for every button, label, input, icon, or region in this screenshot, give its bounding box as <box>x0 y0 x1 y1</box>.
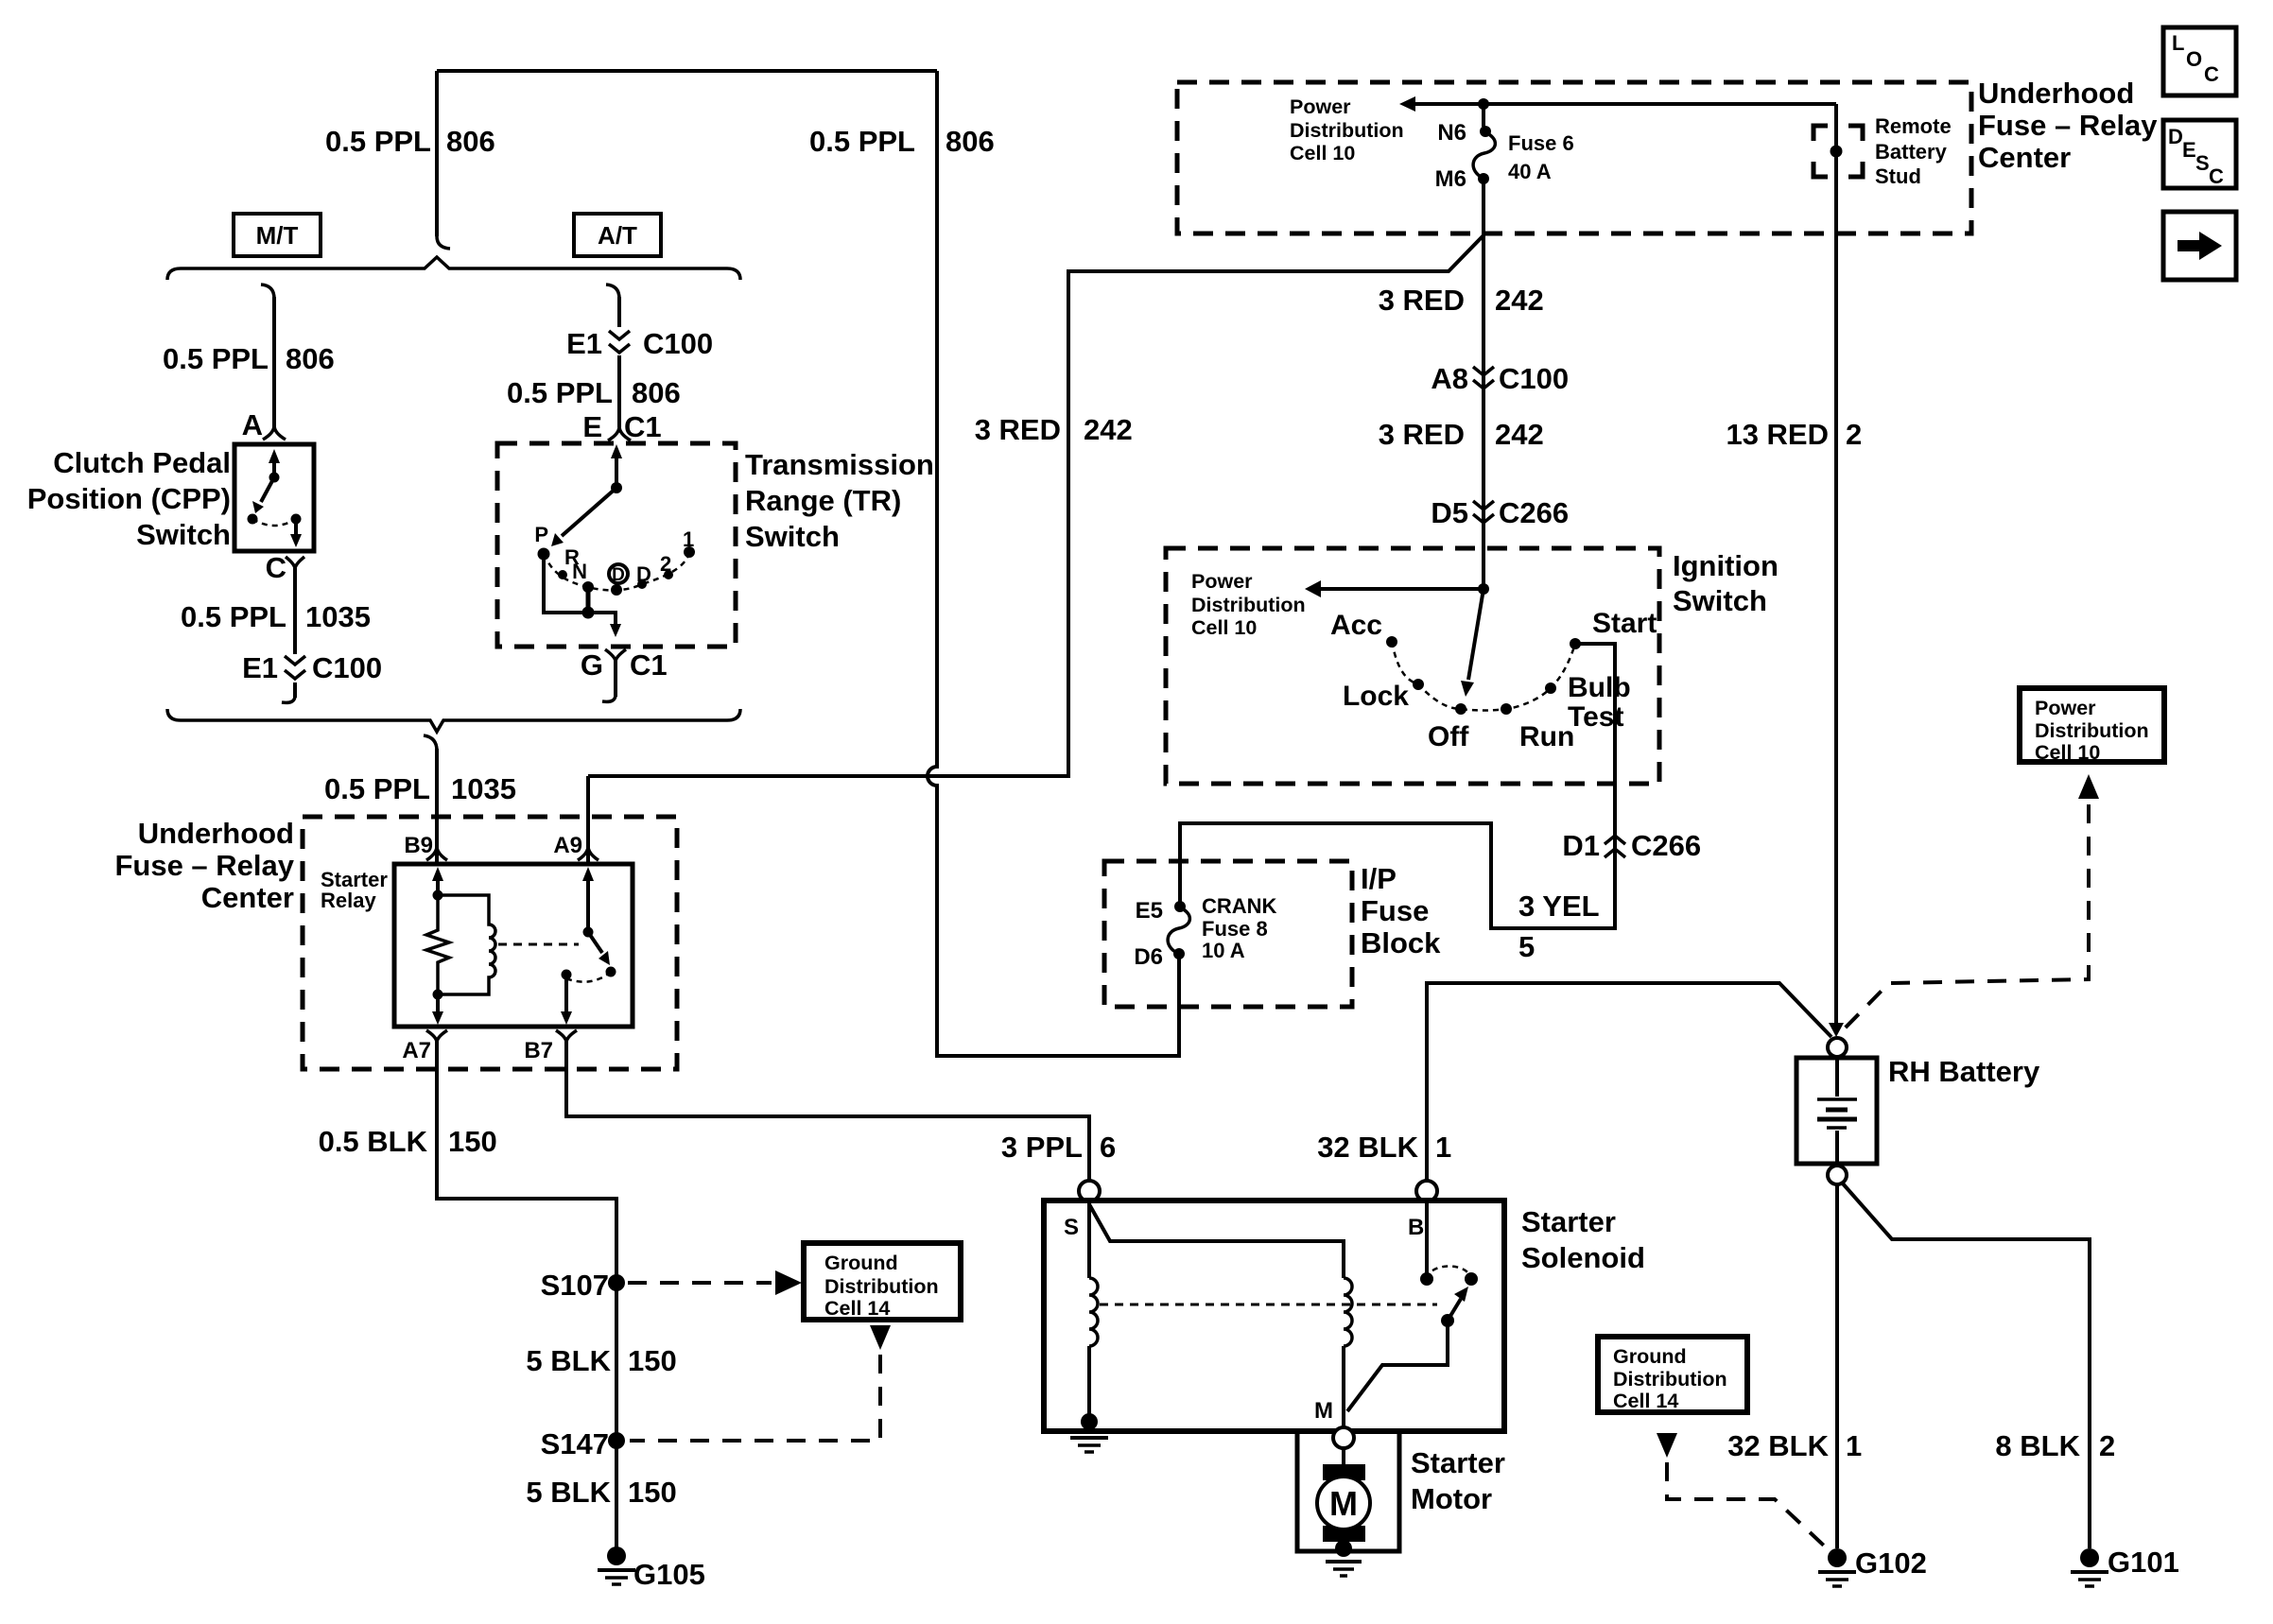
wire below G C1 to brace <box>614 661 617 697</box>
svg-text:Transmission: Transmission <box>745 448 934 481</box>
wire C down 0.5 PPL 1035 <box>293 568 297 654</box>
svg-text:806: 806 <box>946 125 995 158</box>
svg-text:D: D <box>612 565 625 585</box>
svg-text:A9: A9 <box>553 833 582 858</box>
wire hook below brace <box>424 735 437 751</box>
remote battery stud corner marks <box>1813 126 1863 177</box>
connector chevron at G C1 <box>605 649 626 662</box>
svg-text:Fuse – Relay: Fuse – Relay <box>114 849 294 882</box>
ground symbol under solenoid <box>1070 1436 1108 1440</box>
svg-text:M6: M6 <box>1435 166 1466 192</box>
wire top feed horizontal 0.5 PPL 806 <box>437 69 937 73</box>
arrow down from ground distribution box <box>870 1325 891 1350</box>
svg-text:M: M <box>1314 1398 1333 1424</box>
TR contact R <box>558 570 567 579</box>
M/T tag box <box>234 214 321 256</box>
svg-text:B: B <box>1408 1215 1424 1240</box>
svg-text:1: 1 <box>1846 1429 1862 1462</box>
svg-text:1035: 1035 <box>451 772 516 805</box>
svg-text:D1: D1 <box>1562 829 1600 862</box>
relay coil branch arrow down <box>436 994 440 1012</box>
svg-text:A7: A7 <box>402 1038 431 1063</box>
wire stud down 13 RED 2 <box>1834 104 1838 1025</box>
svg-text:D: D <box>636 562 651 586</box>
svg-text:C266: C266 <box>1499 496 1569 529</box>
svg-text:Power: Power <box>2035 697 2096 719</box>
svg-text:Range (TR): Range (TR) <box>745 484 901 517</box>
relay coil bottom junction dot <box>433 990 443 1000</box>
arrow legend box <box>2163 212 2236 280</box>
starter motor box <box>1297 1429 1399 1551</box>
svg-text:Fuse – Relay: Fuse – Relay <box>1978 109 2158 142</box>
svg-text:N6: N6 <box>1437 120 1466 146</box>
svg-text:G101: G101 <box>2108 1546 2179 1579</box>
svg-text:Cell 14: Cell 14 <box>824 1297 890 1320</box>
svg-text:C: C <box>266 551 286 584</box>
ignition contact Acc <box>1386 636 1397 648</box>
svg-text:Starter: Starter <box>1521 1205 1616 1238</box>
solenoid mechanical link dashed <box>1100 1304 1437 1306</box>
CPP switch movable arm <box>261 477 274 502</box>
svg-text:D: D <box>2168 125 2183 148</box>
ground G102 <box>1828 1548 1847 1567</box>
svg-text:A: A <box>242 408 263 441</box>
splice S107 dot <box>608 1274 625 1291</box>
svg-text:M/T: M/T <box>256 221 299 250</box>
solenoid switch pivot dot <box>1441 1314 1454 1327</box>
svg-text:I/P: I/P <box>1361 862 1397 895</box>
svg-text:S107: S107 <box>541 1269 609 1302</box>
svg-text:Underhood: Underhood <box>1978 77 2134 110</box>
svg-text:A8: A8 <box>1431 362 1468 395</box>
relay coil top junction dot <box>433 890 443 901</box>
svg-text:3 RED: 3 RED <box>975 413 1061 446</box>
svg-text:Ground: Ground <box>1613 1345 1687 1368</box>
solenoid switch B contact <box>1425 1201 1429 1274</box>
svg-text:242: 242 <box>1495 284 1544 317</box>
junction dot at fuse 6 feed <box>1478 98 1489 110</box>
solenoid switch movable arm <box>1448 1299 1461 1321</box>
relay coil (parallel) <box>438 895 495 994</box>
svg-text:Ground: Ground <box>824 1252 898 1274</box>
solenoid hold-in coil wire to M <box>1342 1346 1345 1427</box>
relay switch arm contact dot <box>606 967 616 977</box>
arrow down from ground distribution box (right) <box>1657 1433 1677 1458</box>
wire end curl at brace center <box>437 236 450 249</box>
svg-text:1: 1 <box>683 527 694 551</box>
svg-text:Stud: Stud <box>1875 164 1921 188</box>
ignition wiper arrow <box>1468 589 1484 680</box>
solenoid switch right contact <box>1465 1272 1478 1286</box>
svg-text:Acc: Acc <box>1330 610 1382 641</box>
TR wire N stub <box>586 592 591 613</box>
svg-text:Run: Run <box>1519 721 1574 752</box>
svg-text:RH Battery: RH Battery <box>1888 1055 2040 1088</box>
TR contact 2 <box>664 570 673 579</box>
solenoid coil ground wire <box>1087 1346 1091 1420</box>
wire Start to crank fuse 3 YEL 5 <box>1180 644 1615 928</box>
svg-text:0.5 PPL: 0.5 PPL <box>163 342 269 375</box>
svg-text:Power: Power <box>1290 95 1351 118</box>
svg-text:806: 806 <box>446 125 495 158</box>
DESC legend box <box>2163 120 2236 188</box>
ground distribution cell 14 box (right) <box>1598 1337 1747 1412</box>
svg-text:E: E <box>582 410 602 443</box>
svg-text:Switch: Switch <box>1673 584 1767 617</box>
svg-text:1: 1 <box>1435 1131 1451 1164</box>
CPP switch left contact <box>248 514 258 525</box>
CPP switch pivot dot <box>269 473 280 483</box>
TR contact D <box>637 579 647 589</box>
svg-text:32 BLK: 32 BLK <box>1727 1429 1829 1462</box>
svg-text:806: 806 <box>632 376 681 409</box>
svg-text:0.5 PPL: 0.5 PPL <box>181 600 286 633</box>
svg-text:32 BLK: 32 BLK <box>1317 1131 1418 1164</box>
solenoid pull-in coil <box>1089 1278 1098 1346</box>
svg-text:3 YEL: 3 YEL <box>1518 890 1600 923</box>
transmission range switch dashed box <box>497 443 736 647</box>
svg-text:B9: B9 <box>404 833 433 858</box>
ignition contact Lock <box>1413 679 1424 690</box>
svg-text:Distribution: Distribution <box>1191 594 1306 616</box>
svg-text:5: 5 <box>1518 930 1535 963</box>
TR contacts arc dashed <box>544 552 689 590</box>
wire hook A/T branch <box>606 285 619 299</box>
svg-text:Cell 10: Cell 10 <box>1290 142 1355 164</box>
svg-text:Position (CPP): Position (CPP) <box>27 482 231 515</box>
svg-text:Fuse 8: Fuse 8 <box>1202 917 1268 941</box>
svg-text:Cell 14: Cell 14 <box>1613 1390 1678 1412</box>
svg-text:Cell 10: Cell 10 <box>2035 741 2100 764</box>
svg-text:Clutch Pedal: Clutch Pedal <box>53 446 231 479</box>
relay switch arrow up <box>586 880 590 932</box>
connector chevron at A <box>263 425 286 440</box>
wire down to B9 <box>435 749 439 864</box>
svg-text:2: 2 <box>2099 1429 2115 1462</box>
svg-text:Ignition: Ignition <box>1673 549 1778 582</box>
relay switch travel arc dashed <box>568 972 611 982</box>
svg-text:Fuse: Fuse <box>1361 894 1429 927</box>
svg-text:N: N <box>572 560 587 583</box>
underhood fuse-relay center dashed box (top right) <box>1177 82 1971 233</box>
connector chevron at E C1 <box>608 426 631 441</box>
solenoid switch wire to M <box>1347 1321 1448 1411</box>
starter motor armature <box>1323 1464 1365 1480</box>
svg-text:C100: C100 <box>312 651 382 684</box>
wire fuse output jog to relay A9 feed <box>588 235 1484 776</box>
TR switch wiper arm to P <box>562 488 616 536</box>
svg-text:40 A: 40 A <box>1508 160 1552 183</box>
connector chevron at B7 <box>556 1030 577 1043</box>
dashed link battery to power distribution <box>1838 804 2089 1035</box>
battery cell plates <box>1835 1058 1839 1097</box>
remote battery stud dot <box>1831 146 1843 158</box>
svg-text:E1: E1 <box>566 327 602 360</box>
relay switch movable arm <box>588 932 602 953</box>
TR wire P to exit <box>544 554 616 626</box>
crank fuse E5 terminal <box>1174 901 1186 912</box>
svg-text:C: C <box>2209 164 2224 188</box>
wire M/T branch vertical <box>272 297 276 427</box>
power distribution cell 10 box (right) <box>2020 688 2164 762</box>
splice S147 dot <box>608 1432 625 1449</box>
ignition contact Bulb Test <box>1545 682 1556 694</box>
svg-text:M: M <box>1329 1484 1358 1523</box>
crank fuse element <box>1168 907 1189 953</box>
ignition contacts arc dashed <box>1392 642 1575 711</box>
wire hook M/T branch <box>261 285 274 299</box>
svg-text:5 BLK: 5 BLK <box>526 1344 611 1377</box>
svg-text:0.5 PPL: 0.5 PPL <box>324 772 430 805</box>
svg-text:A/T: A/T <box>598 221 637 250</box>
wire A/T branch vertical <box>617 297 621 327</box>
svg-text:E1: E1 <box>242 651 278 684</box>
relay coil branch arrow up <box>436 880 440 895</box>
TR switch entry arrow up <box>615 457 618 488</box>
clutch pedal position switch box <box>234 444 314 551</box>
relay resistor <box>426 895 449 994</box>
solenoid S terminal circle <box>1079 1181 1100 1201</box>
CPP switch travel arc dashed <box>252 519 296 526</box>
CPP switch arrow up <box>272 462 276 477</box>
CPP switch right contact <box>291 514 302 525</box>
svg-text:0.5 PPL: 0.5 PPL <box>507 376 613 409</box>
solenoid M terminal circle <box>1333 1427 1354 1448</box>
svg-text:Underhood: Underhood <box>138 817 294 850</box>
svg-text:Bulb: Bulb <box>1568 672 1631 703</box>
svg-text:0.5 PPL: 0.5 PPL <box>809 125 915 158</box>
svg-text:3 PPL: 3 PPL <box>1001 1131 1083 1164</box>
svg-text:Distribution: Distribution <box>1613 1368 1727 1391</box>
wire 0.5 PPL 806 right vertical with hop and to D6 <box>928 71 1179 1056</box>
starter motor ground dot <box>1335 1540 1352 1557</box>
wire below E1 C100 to brace <box>293 682 297 698</box>
svg-text:3 RED: 3 RED <box>1379 284 1465 317</box>
fuse 6 element <box>1473 132 1495 178</box>
ignition contact Start <box>1570 638 1581 649</box>
svg-text:5 BLK: 5 BLK <box>526 1476 611 1509</box>
RH battery box <box>1796 1058 1877 1164</box>
svg-text:242: 242 <box>1495 418 1544 451</box>
RH battery negative terminal circle <box>1828 1166 1847 1184</box>
TR exit arrow down <box>610 624 621 637</box>
svg-text:0.5 PPL: 0.5 PPL <box>325 125 431 158</box>
TR contact 1 <box>684 546 695 558</box>
CPP switch arrow down to C <box>294 519 298 535</box>
solenoid S internal wire and branch <box>1089 1201 1344 1278</box>
svg-text:G: G <box>581 648 603 682</box>
RH battery positive terminal circle <box>1828 1038 1847 1057</box>
svg-text:C266: C266 <box>1631 829 1701 862</box>
svg-text:13 RED: 13 RED <box>1726 418 1829 451</box>
svg-text:2: 2 <box>1846 418 1862 451</box>
svg-text:Distribution: Distribution <box>824 1275 939 1298</box>
fuse 6 N6 terminal <box>1482 104 1485 127</box>
svg-text:Remote: Remote <box>1875 114 1952 138</box>
ground G101 <box>2080 1548 2099 1567</box>
svg-text:0.5 BLK: 0.5 BLK <box>319 1125 428 1158</box>
svg-text:C100: C100 <box>1499 362 1569 395</box>
svg-text:B7: B7 <box>524 1038 553 1063</box>
wire B7 to solenoid S 3 PPL 6 <box>566 1042 1089 1181</box>
svg-text:Lock: Lock <box>1343 681 1409 712</box>
starter relay box <box>394 864 633 1027</box>
relay switch arrow down to B7 <box>564 975 568 1012</box>
svg-text:Start: Start <box>1592 608 1657 639</box>
svg-text:S: S <box>2195 151 2210 175</box>
svg-text:Center: Center <box>1978 141 2071 174</box>
brace top (splice bus) <box>167 257 740 280</box>
solenoid switch travel arc dashed <box>1427 1267 1471 1280</box>
svg-text:150: 150 <box>628 1476 677 1509</box>
svg-text:E5: E5 <box>1136 898 1163 924</box>
wire battery to solenoid B 32 BLK 1 <box>1427 983 1831 1181</box>
svg-text:Battery: Battery <box>1875 140 1948 164</box>
solenoid B terminal circle <box>1416 1181 1437 1201</box>
wire to E C1 <box>617 355 621 427</box>
TR contact D circled <box>609 564 628 583</box>
svg-text:L: L <box>2172 31 2184 55</box>
svg-text:D5: D5 <box>1431 496 1468 529</box>
wire arrow to power distribution (ignition) <box>1318 587 1484 591</box>
svg-text:2: 2 <box>660 552 671 576</box>
svg-text:Block: Block <box>1361 926 1441 959</box>
wire battery negative to G101 8 BLK 2 <box>1842 1183 2090 1548</box>
wire left vertical 0.5 PPL 806 <box>435 71 439 236</box>
svg-text:P: P <box>534 523 548 546</box>
svg-text:S: S <box>1064 1215 1079 1240</box>
svg-text:Cell 10: Cell 10 <box>1191 616 1257 639</box>
relay mechanical link dashed <box>498 943 579 946</box>
wire M6 down 3 RED 242 <box>1482 179 1485 589</box>
svg-text:8 BLK: 8 BLK <box>1995 1429 2080 1462</box>
brace bottom (splice bus) <box>167 709 740 732</box>
svg-text:150: 150 <box>628 1344 677 1377</box>
TR contact P <box>538 548 550 561</box>
dashed link to S147 <box>630 1355 880 1441</box>
svg-text:Switch: Switch <box>745 520 840 553</box>
relay switch fixed contact dot <box>562 970 572 980</box>
svg-text:242: 242 <box>1084 413 1133 446</box>
svg-text:Distribution: Distribution <box>1290 119 1404 142</box>
svg-text:G102: G102 <box>1855 1546 1927 1580</box>
svg-text:Solenoid: Solenoid <box>1521 1241 1645 1274</box>
connector chevron at A7 <box>426 1030 447 1043</box>
connector chevron at B9 <box>426 846 447 860</box>
TR switch pivot dot <box>611 482 622 493</box>
wire battery negative to G102 32 BLK 1 <box>1835 1184 1839 1548</box>
wire bus with arrow to power distribution <box>1413 102 1836 106</box>
svg-text:D6: D6 <box>1134 944 1163 970</box>
svg-text:3 RED: 3 RED <box>1379 418 1465 451</box>
svg-text:O: O <box>2186 47 2202 71</box>
svg-text:Power: Power <box>1191 570 1253 593</box>
relay switch pivot dot <box>583 927 594 938</box>
svg-text:1035: 1035 <box>305 600 371 633</box>
svg-text:C1: C1 <box>630 648 668 682</box>
arrow up into power distribution box <box>2078 774 2099 799</box>
crank fuse D6 terminal <box>1173 948 1185 959</box>
svg-text:CRANK: CRANK <box>1202 894 1277 918</box>
svg-text:Off: Off <box>1428 721 1469 752</box>
svg-text:6: 6 <box>1100 1131 1116 1164</box>
svg-text:Switch: Switch <box>136 518 231 551</box>
TR contact N <box>582 581 594 593</box>
svg-text:C100: C100 <box>643 327 713 360</box>
svg-text:10 A: 10 A <box>1202 939 1245 962</box>
svg-text:806: 806 <box>286 342 335 375</box>
svg-text:150: 150 <box>448 1125 497 1158</box>
connector chevron at A9 <box>578 846 599 860</box>
TR junction dot <box>582 607 595 619</box>
LOC legend box <box>2163 27 2236 95</box>
wire A7 ground path 0.5 BLK 150 <box>437 1042 616 1548</box>
svg-text:C: C <box>2204 62 2219 86</box>
ground symbol under motor <box>1326 1560 1362 1564</box>
A/T tag box <box>574 214 661 256</box>
svg-text:Starter: Starter <box>1411 1446 1505 1479</box>
solenoid hold-in coil <box>1344 1278 1352 1346</box>
svg-text:Motor: Motor <box>1411 1482 1492 1515</box>
svg-text:S147: S147 <box>541 1427 609 1460</box>
dashed link to G102 <box>1667 1462 1825 1546</box>
svg-text:C1: C1 <box>624 410 662 443</box>
connector chevron at C <box>286 557 304 569</box>
wire M to motor <box>1342 1448 1345 1466</box>
solenoid coil ground dot <box>1081 1413 1098 1430</box>
I/P fuse block dashed box <box>1104 861 1352 1007</box>
svg-text:E: E <box>2182 138 2196 162</box>
ignition contact Off <box>1455 703 1466 715</box>
svg-text:Center: Center <box>201 881 294 914</box>
svg-text:Distribution: Distribution <box>2035 719 2149 742</box>
starter solenoid box <box>1044 1201 1504 1431</box>
ignition contact Run <box>1501 703 1512 715</box>
ground distribution cell 14 box (left) <box>804 1243 961 1320</box>
ignition feed junction dot <box>1478 583 1489 595</box>
fuse 6 M6 terminal <box>1478 173 1489 184</box>
underhood fuse-relay center dashed box (lower left) <box>303 817 677 1069</box>
wire A9 vertical from feed <box>586 776 590 864</box>
svg-text:G105: G105 <box>633 1558 705 1591</box>
dashed link S107 to ground distribution <box>628 1281 772 1285</box>
svg-text:Fuse 6: Fuse 6 <box>1508 131 1574 155</box>
ignition switch dashed box <box>1166 548 1659 784</box>
ground G105 <box>607 1546 626 1565</box>
svg-text:Relay: Relay <box>321 889 376 912</box>
